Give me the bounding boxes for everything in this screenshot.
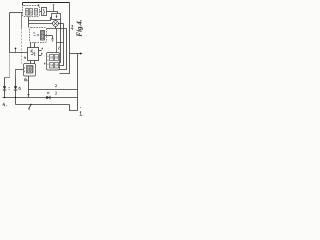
wire: tap link on bus B — [57, 42, 64, 44]
two cells in box 5a — [41, 32, 43, 35]
label numeral at top of tick — [53, 5, 55, 7]
dashed block 3 (tuner module) — [23, 6, 40, 17]
cell box h2 — [55, 55, 59, 61]
junction dot at potentiometer tap — [30, 104, 31, 105]
right bus B (from mixer output) — [60, 24, 64, 66]
wire: link block 6 left side to diode branch 2 — [16, 70, 24, 78]
wire: oscillator to mixer — [55, 20, 57, 21]
block 6 container (battery module) — [24, 64, 36, 77]
svg-text:Fig.4.: Fig.4. — [76, 19, 84, 36]
dashes at left inside block 6 — [24, 67, 26, 72]
label 8. above D3 — [47, 92, 49, 94]
cell box h3 — [50, 63, 54, 69]
wire: top-left drop into dashed block 3 — [22, 3, 24, 6]
diode D1 — [3, 86, 6, 89]
cell glyph marks in block 6h — [51, 56, 58, 67]
cell box h1 — [50, 55, 54, 61]
value mark in 3a — [26, 10, 27, 14]
box 5 (detector, center-left) — [28, 48, 39, 61]
wire: diode branch 1 lower lead — [4, 90, 6, 98]
cell 1 — [28, 67, 30, 73]
wire: box 5 right lead 2 — [39, 55, 42, 57]
value mark in 3b — [30, 10, 31, 14]
cell glyph marks in block 6 — [29, 68, 32, 72]
wire: lower bus from block 5 corner to right bus — [47, 28, 67, 30]
wire: diode branch 1 upper lead — [4, 78, 6, 87]
diode D3 in bottom bus 1 — [46, 96, 49, 99]
wire: diode branch 2 lower lead through junction — [15, 90, 17, 105]
dashed block 5 (IF amplifier module) — [30, 28, 47, 43]
label 6 right of D2 — [19, 87, 21, 90]
label tick at lead 1 — [41, 48, 43, 50]
wire: antenna input into block 3 — [10, 12, 23, 14]
wire: box 5 bottom lead a — [30, 61, 32, 64]
value mark in 3c — [35, 10, 36, 14]
wire: block 5 to box 5 lead b — [34, 43, 36, 48]
wire: mid bus to right return — [29, 89, 78, 91]
wire: IF bus 1 (upper) — [29, 18, 52, 21]
wire: left vertical bus (antenna lead) — [9, 13, 11, 53]
label tick 7 above wire — [53, 7, 55, 12]
wire: IF bus 2 into mixer left port — [29, 23, 53, 25]
inner box of block 6 — [27, 66, 34, 74]
wire: bottom-right step — [70, 105, 78, 111]
junction dot at D1 branch — [4, 97, 5, 98]
label tick b near block 6h — [57, 47, 60, 50]
box 7 (amplifier) — [42, 8, 47, 16]
wire: right return bus down — [77, 54, 79, 111]
wire: box 5 bottom lead b — [34, 61, 36, 64]
dashes at left inside block 6h — [47, 56, 49, 66]
wire: left bus continues toward rectifier row — [9, 53, 11, 78]
wire: block 5 output to ground tap — [45, 35, 53, 37]
cell 2 — [31, 67, 33, 73]
wire: mixer bottom branch down to block 6h — [56, 29, 58, 53]
wire: block 6 bottom lead down to bottom bus — [28, 76, 30, 98]
label tick left of block 6h — [44, 63, 46, 65]
dashed block 6h (output module) — [47, 53, 60, 71]
label tick top-right of block 3 — [38, 4, 40, 6]
right bus A (from oscillator) — [60, 20, 61, 63]
wire: inner left vertical bus upper — [21, 13, 23, 29]
wire: top bus — [23, 2, 70, 4]
diode D2 — [14, 86, 17, 89]
mixer M1 (circle with X) — [53, 21, 59, 27]
cell box h4 — [55, 63, 59, 69]
box 3a (filter stage 1) — [26, 9, 29, 16]
arrowhead of output — [80, 52, 83, 54]
wire: box 7 to oscillator drop — [47, 12, 58, 14]
label ticks near right end of mid bus — [55, 84, 57, 86]
wire: vertical link block 3 to block 5 — [28, 17, 30, 28]
wire: mixer right port to right bus — [58, 23, 63, 25]
wire: output arrow branch — [70, 53, 81, 55]
right bus C (from lower bus) — [60, 29, 67, 70]
tap arrow at junction — [29, 105, 31, 109]
label 4. bottom-left — [3, 103, 7, 106]
label tick left of box 5 bottom — [24, 56, 26, 59]
cell glyph marks in box 5a — [42, 32, 44, 38]
wire: block 5 to box 5 lead a — [30, 43, 32, 48]
label 1. bottom-right — [80, 111, 84, 115]
wire: block 3 to box 7 — [40, 11, 42, 13]
value squiggle in box 7 — [44, 9, 45, 15]
glyphs inside box 5 — [31, 50, 35, 56]
label 2 beside right bus — [71, 25, 73, 29]
junction tick at block 6 lead — [27, 94, 30, 96]
box 5a inside block 5 — [41, 31, 45, 41]
junction dot at D2 branch — [15, 97, 16, 98]
wire: rectifier top rail — [5, 77, 10, 79]
junction pin symbol on input wire — [15, 48, 17, 50]
box 2 (local oscillator) — [52, 14, 61, 20]
ground symbol — [51, 39, 54, 41]
box 3c (filter stage 3) — [35, 9, 38, 16]
transistor glyphs inside block 5 — [33, 33, 39, 36]
crystal mark in box 2 — [56, 15, 58, 18]
label dot above 1. — [80, 106, 81, 108]
wire: ground stub — [52, 36, 54, 40]
label tick at lead 2 — [41, 53, 43, 55]
wire: mixer bottom port — [55, 26, 57, 28]
wire: bottom bus 1 — [3, 97, 78, 99]
wire: input to box 5 — [10, 52, 28, 54]
box 3b (filter stage 2) — [30, 9, 33, 16]
wire: diode branch 2 upper lead — [15, 78, 17, 87]
right bus D (from top bus) — [60, 3, 70, 74]
wire: box 5 right lead 1 — [39, 50, 42, 52]
wire: bottom bus 2 — [16, 104, 70, 106]
label tick right of D1 — [9, 88, 10, 90]
wire: inner left vertical bus lower (dashed) — [21, 28, 23, 64]
label 6. beside lead — [24, 79, 28, 81]
